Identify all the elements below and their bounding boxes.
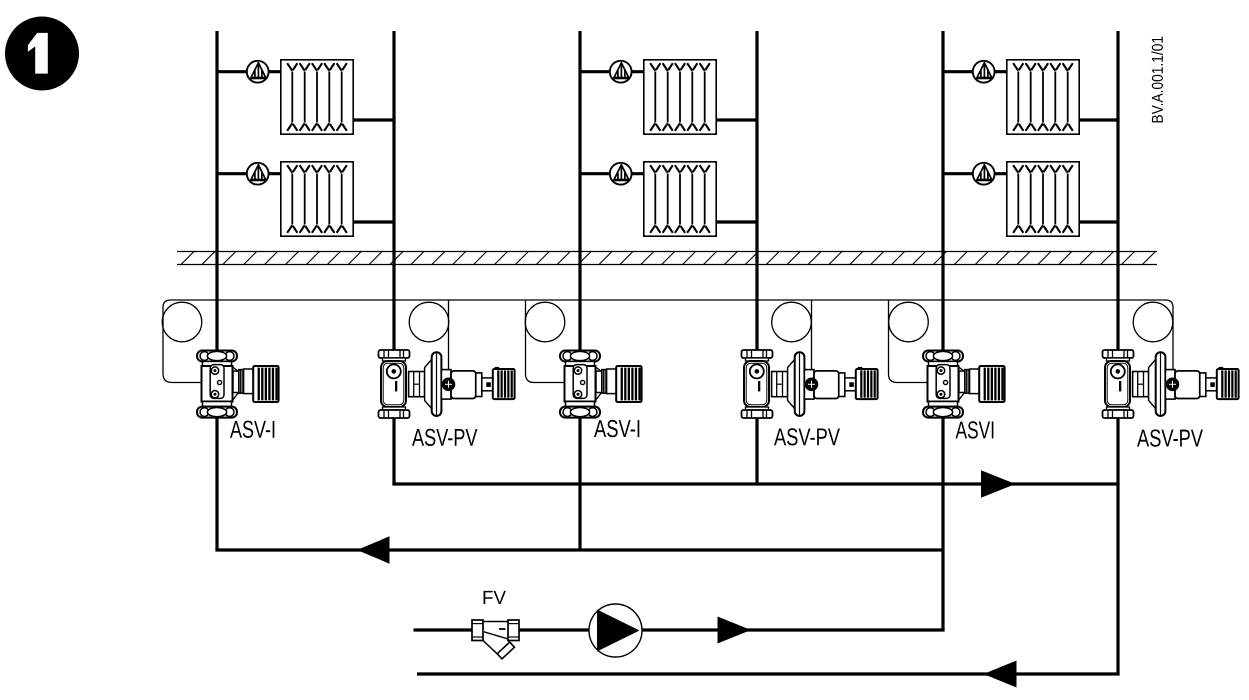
label "ASV-PV" for valve 2 <box>412 429 477 446</box>
wire supply riser 2 (x=580) <box>578 31 581 550</box>
thermostatic valve on upper radiator, group 2 <box>610 61 632 83</box>
label "ASV-PV" for valve 6 <box>1137 429 1203 446</box>
wire impulse tube drop, valve 3 <box>526 300 566 383</box>
label "ASV-PV" for valve 4 <box>774 428 840 445</box>
wire return riser 2 (x=757) <box>755 31 758 484</box>
flow arrow left, bottom return line <box>984 661 1017 688</box>
wire radiator lower outlet, group 1 <box>354 220 394 223</box>
wire radiator lower inlet, group 1 <box>217 172 280 175</box>
wire radiator upper inlet, group 2 <box>580 70 643 73</box>
flow arrow right, pump line <box>718 617 752 644</box>
wire radiator upper outlet, group 2 <box>717 118 757 121</box>
wire return riser 3 (x=1118) <box>1116 31 1119 674</box>
page number badge "1" <box>5 17 79 91</box>
wire pump line (flow from plant) <box>414 628 945 631</box>
wire radiator lower inlet, group 2 <box>580 172 643 175</box>
label "ASV-I" for valve 3 <box>594 420 639 437</box>
wire impulse tube drop, valve 5 <box>889 300 929 383</box>
label "ASV-I" for valve 1 <box>230 421 274 438</box>
balancing valve U1 ASV-I <box>197 351 279 418</box>
thermostatic valve on lower radiator, group 1 <box>247 163 269 185</box>
wire supply header (flow main) <box>215 548 943 551</box>
wire supply riser 1 (x=217) <box>215 31 218 550</box>
wire impulse tube drop, valve 2 <box>448 300 450 371</box>
flow arrow right, return header <box>981 470 1016 497</box>
wire radiator upper inlet, group 3 <box>943 70 1006 73</box>
impulse tube coil, valve 2 <box>409 302 449 342</box>
thermostatic valve on upper radiator, group 3 <box>973 61 995 83</box>
radiator lower, group 2 <box>644 162 716 236</box>
impulse tube coil, valve 6 <box>1133 302 1173 342</box>
balancing valve U6 ASV-PV <box>1103 350 1239 418</box>
thermostatic valve on upper radiator, group 1 <box>247 61 269 83</box>
impulse tube coil, valve 3 <box>525 302 565 342</box>
radiator lower, group 1 <box>281 162 353 236</box>
impulse tube coil, valve 4 <box>772 302 812 342</box>
wire radiator upper inlet, group 1 <box>217 70 280 73</box>
impulse tube coil, valve 1 <box>162 302 202 342</box>
balancing valve U2 ASV-PV <box>379 350 515 418</box>
wire radiator lower outlet, group 2 <box>717 220 757 223</box>
strainer valve FV <box>472 620 519 659</box>
impulse tube coil, valve 5 <box>889 302 929 342</box>
balancing valve U5 ASV-I <box>923 351 1005 418</box>
radiator lower, group 3 <box>1007 162 1079 236</box>
wire radiator upper outlet, group 3 <box>1080 118 1118 121</box>
radiator upper, group 2 <box>644 60 716 134</box>
circulation pump P1 <box>589 604 642 657</box>
thermostatic valve on lower radiator, group 2 <box>610 163 632 185</box>
label "FV" for strainer <box>484 591 506 604</box>
label "ASVI" for valve 5 <box>956 421 994 438</box>
flow arrow left, supply header <box>357 536 390 563</box>
wire impulse tube line (thin) <box>163 300 1173 383</box>
drawing reference text BV.A.001.1/01 <box>1151 37 1163 123</box>
balancing valve U4 ASV-PV <box>742 350 878 418</box>
wire radiator lower outlet, group 3 <box>1080 220 1118 223</box>
radiator upper, group 1 <box>281 60 353 134</box>
radiator upper, group 3 <box>1007 60 1079 134</box>
balancing valve U3 ASV-I <box>560 351 642 418</box>
floor slab (hatched band) <box>177 252 1157 265</box>
wire impulse tube drop, valve 4 <box>811 300 813 371</box>
wire radiator upper outlet, group 1 <box>354 118 394 121</box>
wire supply riser 3 (x=943) <box>941 31 944 630</box>
wire return header <box>392 482 1119 485</box>
thermostatic valve on lower radiator, group 3 <box>973 163 995 185</box>
wire radiator lower inlet, group 3 <box>943 172 1006 175</box>
wire bottom return line <box>417 672 1120 675</box>
wire return riser 1 (x=394) <box>392 31 395 484</box>
